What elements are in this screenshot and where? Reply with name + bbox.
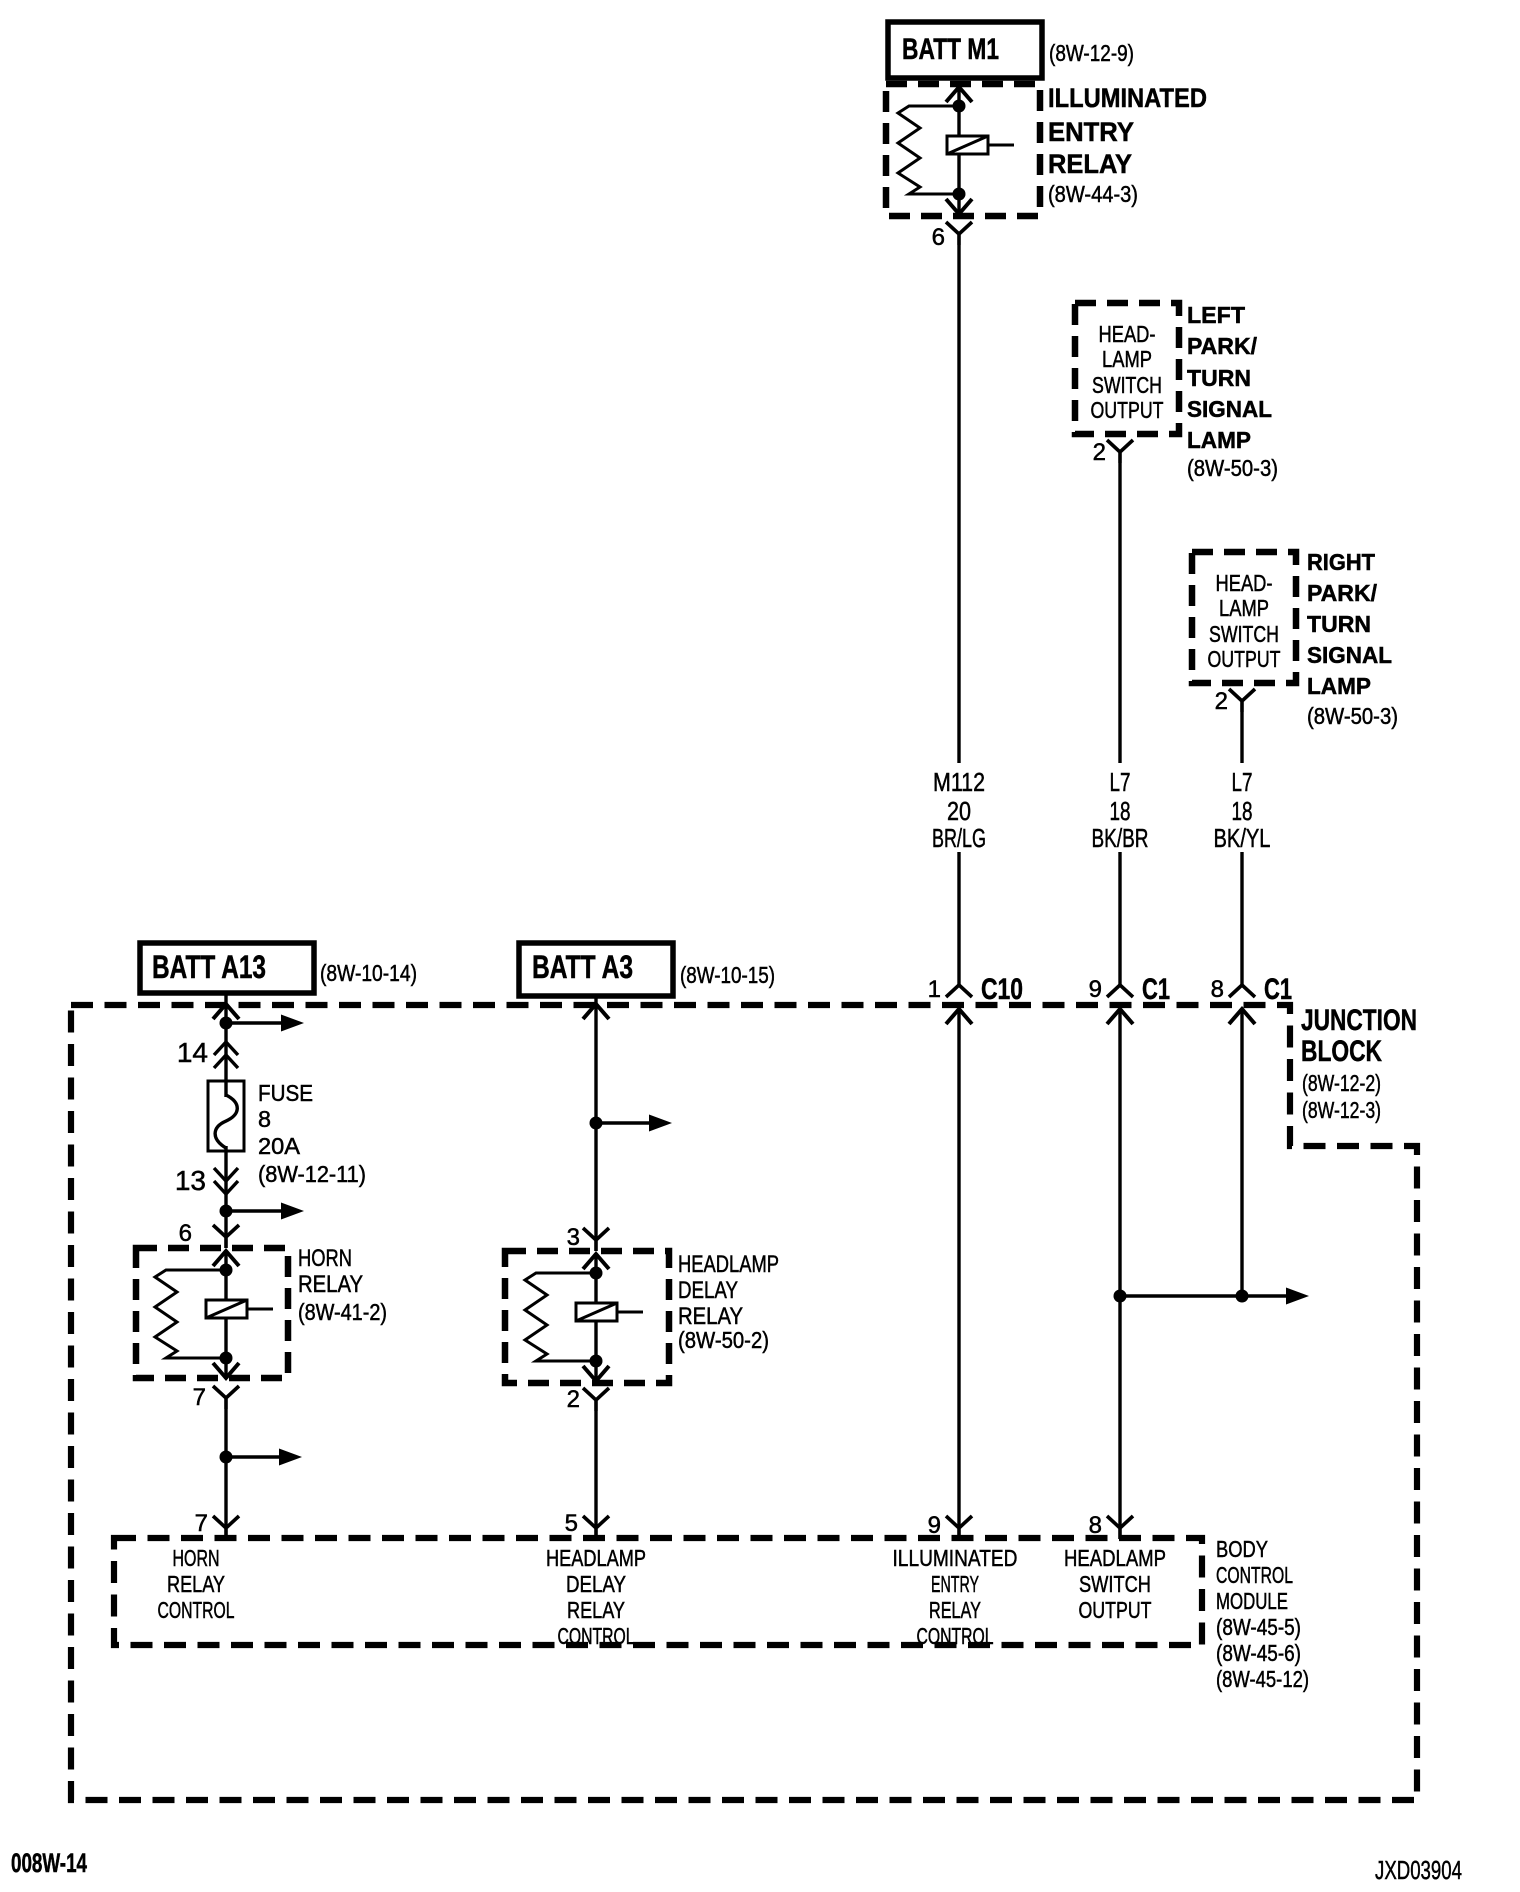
svg-text:CONTROL: CONTROL xyxy=(558,1623,635,1649)
junction block xyxy=(71,1005,1417,1800)
svg-text:OUTPUT: OUTPUT xyxy=(1208,646,1281,672)
svg-text:TURN: TURN xyxy=(1307,611,1371,637)
svg-text:(8W-45-5): (8W-45-5) xyxy=(1216,1614,1301,1640)
wire label M112 20 BR/LG xyxy=(932,767,986,853)
svg-text:8: 8 xyxy=(1211,976,1224,1003)
branch arrow headlamp switch output bus xyxy=(1242,1288,1309,1305)
svg-text:(8W-12-3): (8W-12-3) xyxy=(1302,1097,1381,1123)
svg-text:BATT M1: BATT M1 xyxy=(902,33,999,66)
svg-text:RELAY: RELAY xyxy=(929,1597,981,1623)
BCM text horn relay control xyxy=(158,1545,235,1623)
headlamp delay relay box xyxy=(505,1251,669,1383)
svg-text:SWITCH: SWITCH xyxy=(1079,1571,1151,1597)
pin 13 fuse block xyxy=(175,1165,238,1196)
svg-text:BK/YL: BK/YL xyxy=(1214,823,1271,853)
svg-text:RELAY: RELAY xyxy=(1048,149,1132,179)
relay coil xyxy=(206,1300,247,1318)
pin 2 right park/turn signal lamp xyxy=(1215,688,1255,715)
feed box BATT A13 xyxy=(140,943,314,993)
svg-text:7: 7 xyxy=(195,1510,208,1537)
svg-text:JUNCTION: JUNCTION xyxy=(1301,1004,1417,1037)
fuse 8 xyxy=(208,1081,244,1151)
reference (8W-10-15) xyxy=(680,962,775,988)
svg-text:(8W-12-9): (8W-12-9) xyxy=(1049,40,1134,66)
svg-text:20: 20 xyxy=(947,796,971,826)
svg-text:20A: 20A xyxy=(258,1133,301,1159)
wire: C1 pin 9 to BCM pin 8 xyxy=(1118,1009,1121,1528)
svg-text:18: 18 xyxy=(1232,796,1253,826)
arrowhead exiting relay bottom xyxy=(583,1366,609,1381)
page number 008W-14 xyxy=(11,1848,87,1878)
pin 3 headlamp delay relay xyxy=(567,1224,609,1251)
svg-text:PARK/: PARK/ xyxy=(1307,580,1378,606)
svg-text:(8W-10-14): (8W-10-14) xyxy=(320,960,417,986)
svg-text:LAMP: LAMP xyxy=(1219,595,1269,621)
svg-text:DELAY: DELAY xyxy=(566,1571,626,1597)
svg-text:CONTROL: CONTROL xyxy=(1216,1562,1293,1588)
feed box BATT A3 xyxy=(519,943,673,996)
illuminated entry relay label xyxy=(1048,83,1207,207)
svg-text:(8W-50-2): (8W-50-2) xyxy=(678,1327,769,1353)
arrowhead exiting relay bottom xyxy=(946,199,972,214)
wire L7 BK/YL upper segment xyxy=(1240,712,1243,763)
body control module label xyxy=(1216,1536,1309,1692)
svg-text:HORN: HORN xyxy=(173,1545,220,1571)
svg-text:RIGHT: RIGHT xyxy=(1307,549,1375,575)
svg-text:RELAY: RELAY xyxy=(567,1597,625,1623)
svg-text:MODULE: MODULE xyxy=(1216,1588,1288,1614)
svg-text:18: 18 xyxy=(1110,796,1131,826)
svg-text:LAMP: LAMP xyxy=(1102,346,1152,372)
svg-text:ILLUMINATED: ILLUMINATED xyxy=(893,1545,1018,1571)
junction dot relay bottom xyxy=(220,1352,233,1365)
svg-text:C1: C1 xyxy=(1264,973,1292,1006)
wire: fuse to horn relay xyxy=(224,1146,227,1237)
BCM pin 5 xyxy=(565,1510,609,1539)
junction dot relay top xyxy=(590,1267,603,1280)
right headlamp switch output text xyxy=(1208,570,1281,672)
BCM pin 8 xyxy=(1089,1512,1133,1539)
junction dot relay top xyxy=(220,1264,233,1277)
feed box BATT M1 xyxy=(888,22,1042,78)
svg-text:9: 9 xyxy=(1089,976,1102,1003)
junction dot relay bottom xyxy=(953,188,966,201)
wire label L7 18 BK/BR xyxy=(1092,767,1149,853)
wire: headlamp switch output bus xyxy=(1120,1294,1242,1297)
resistor (relay suppression) xyxy=(525,1273,596,1361)
svg-text:HEADLAMP: HEADLAMP xyxy=(1064,1545,1166,1571)
relay coil xyxy=(576,1303,617,1321)
svg-text:(8W-41-2): (8W-41-2) xyxy=(298,1299,387,1325)
junction dot headlamp switch output bus left xyxy=(1114,1290,1127,1303)
junction block label xyxy=(1301,1004,1417,1123)
svg-text:(8W-10-15): (8W-10-15) xyxy=(680,962,775,988)
svg-text:(8W-12-11): (8W-12-11) xyxy=(258,1161,366,1187)
svg-text:LEFT: LEFT xyxy=(1187,302,1245,328)
wire: BATT A3 into junction block xyxy=(583,996,609,1240)
svg-text:HEADLAMP: HEADLAMP xyxy=(546,1545,646,1571)
svg-text:SIGNAL: SIGNAL xyxy=(1307,642,1392,668)
BCM text headlamp delay relay control xyxy=(546,1545,646,1649)
label RIGHT PARK/TURN SIGNAL LAMP xyxy=(1307,549,1398,729)
svg-text:2: 2 xyxy=(1093,439,1106,466)
svg-text:SIGNAL: SIGNAL xyxy=(1187,396,1272,422)
svg-text:LAMP: LAMP xyxy=(1307,673,1371,699)
wire: BATT A13 into junction block xyxy=(213,993,239,1097)
horn relay box xyxy=(136,1248,288,1378)
svg-text:L7: L7 xyxy=(1110,767,1131,797)
svg-text:(8W-45-6): (8W-45-6) xyxy=(1216,1640,1301,1666)
pin 6 horn relay xyxy=(179,1220,239,1248)
wire M112 upper segment xyxy=(957,245,960,763)
illuminated entry relay box xyxy=(886,84,1040,216)
BCM pin 9 xyxy=(928,1512,972,1539)
svg-text:2: 2 xyxy=(567,1386,580,1413)
svg-text:RELAY: RELAY xyxy=(167,1571,225,1597)
svg-text:CONTROL: CONTROL xyxy=(917,1623,994,1649)
branch arrow below fuse xyxy=(226,1203,304,1220)
wire: relay internal vertical xyxy=(957,86,960,215)
label LEFT PARK/TURN SIGNAL LAMP xyxy=(1187,302,1278,481)
wire: relay internal vertical xyxy=(594,1253,597,1382)
wire L7 BK/YL lower segment xyxy=(1240,852,1243,985)
junction dot headlamp switch output bus right xyxy=(1236,1290,1249,1303)
svg-text:DELAY: DELAY xyxy=(678,1277,738,1304)
svg-text:HORN: HORN xyxy=(298,1245,352,1272)
svg-text:ENTRY: ENTRY xyxy=(931,1571,979,1597)
svg-text:ILLUMINATED: ILLUMINATED xyxy=(1048,83,1207,113)
wire: headlamp delay relay to BCM pin 5 xyxy=(594,1411,597,1528)
headlamp delay relay label xyxy=(678,1251,779,1353)
right headlamp switch output box xyxy=(1192,552,1296,683)
svg-text:BATT A3: BATT A3 xyxy=(532,949,633,985)
pin 2 left park/turn signal lamp xyxy=(1093,439,1133,466)
svg-text:(8W-12-2): (8W-12-2) xyxy=(1302,1070,1381,1096)
svg-text:M112: M112 xyxy=(933,767,985,797)
svg-text:RELAY: RELAY xyxy=(678,1303,743,1330)
svg-text:RELAY: RELAY xyxy=(298,1271,363,1298)
svg-text:BR/LG: BR/LG xyxy=(932,823,986,853)
svg-text:CONTROL: CONTROL xyxy=(158,1597,235,1623)
junction dot below BATT A3 xyxy=(590,1117,603,1130)
svg-text:7: 7 xyxy=(193,1384,206,1411)
branch arrow horn relay control xyxy=(226,1449,302,1466)
svg-text:TURN: TURN xyxy=(1187,365,1251,391)
arrowhead exiting relay bottom xyxy=(213,1363,239,1378)
wire: C10 to BCM pin 9 xyxy=(957,1009,960,1528)
pin 14 fuse block xyxy=(177,1037,238,1068)
body control module box xyxy=(114,1538,1202,1645)
reference (8W-12-9) xyxy=(1049,40,1134,66)
svg-text:HEAD-: HEAD- xyxy=(1216,570,1273,596)
svg-text:1: 1 xyxy=(928,976,941,1003)
svg-text:008W-14: 008W-14 xyxy=(11,1848,87,1878)
svg-text:FUSE: FUSE xyxy=(258,1080,313,1106)
svg-text:C10: C10 xyxy=(981,973,1023,1006)
svg-text:BK/BR: BK/BR xyxy=(1092,823,1149,853)
pin 7 horn relay xyxy=(193,1384,239,1411)
svg-text:OUTPUT: OUTPUT xyxy=(1091,397,1164,423)
BCM text illuminated entry relay control xyxy=(893,1545,1018,1649)
left headlamp switch output text xyxy=(1091,321,1164,423)
svg-text:(8W-50-3): (8W-50-3) xyxy=(1187,455,1278,481)
arrowhead entering relay top xyxy=(213,1251,239,1266)
relay coil xyxy=(947,136,988,154)
arrowhead entering relay top xyxy=(946,87,972,102)
svg-text:6: 6 xyxy=(179,1220,192,1247)
junction dot horn relay control xyxy=(220,1451,233,1464)
BCM pin 7 xyxy=(195,1510,239,1539)
svg-text:ENTRY: ENTRY xyxy=(1048,117,1134,147)
svg-text:6: 6 xyxy=(932,224,945,251)
wire M112 lower segment xyxy=(957,852,960,985)
wire label L7 18 BK/YL xyxy=(1214,767,1271,853)
svg-text:14: 14 xyxy=(177,1037,208,1068)
svg-text:OUTPUT: OUTPUT xyxy=(1079,1597,1152,1623)
svg-text:HEAD-: HEAD- xyxy=(1099,321,1156,347)
resistor (relay suppression) xyxy=(898,106,959,194)
BCM text headlamp switch output xyxy=(1064,1545,1166,1623)
svg-text:SWITCH: SWITCH xyxy=(1209,621,1279,647)
junction dot relay bottom xyxy=(590,1355,603,1368)
wire: horn relay to BCM pin 7 xyxy=(224,1409,227,1528)
branch arrow from BATT A13 feed xyxy=(226,1015,304,1032)
svg-text:5: 5 xyxy=(565,1510,578,1537)
drawing number JXD03904 xyxy=(1375,1855,1462,1885)
svg-text:C1: C1 xyxy=(1142,973,1170,1006)
svg-text:JXD03904: JXD03904 xyxy=(1375,1855,1462,1885)
svg-text:(8W-45-12): (8W-45-12) xyxy=(1216,1666,1309,1692)
horn relay label xyxy=(298,1245,387,1325)
svg-text:(8W-50-3): (8W-50-3) xyxy=(1307,703,1398,729)
pin 2 headlamp delay relay xyxy=(567,1386,609,1413)
branch arrow from BATT A3 feed xyxy=(596,1115,672,1132)
svg-text:3: 3 xyxy=(567,1224,580,1251)
svg-text:2: 2 xyxy=(1215,688,1228,715)
junction dot relay top xyxy=(953,100,966,113)
connector C1 pin 8 at junction block xyxy=(1211,973,1292,1024)
svg-text:LAMP: LAMP xyxy=(1187,427,1251,453)
wire: C1 pin 8 down to bus xyxy=(1240,1009,1243,1296)
resistor (relay suppression) xyxy=(155,1270,226,1358)
svg-text:PARK/: PARK/ xyxy=(1187,333,1258,359)
wire L7 BK/BR lower segment xyxy=(1118,852,1121,985)
arrowhead entering relay top xyxy=(583,1254,609,1269)
left headlamp switch output box xyxy=(1075,303,1179,434)
svg-text:BLOCK: BLOCK xyxy=(1301,1035,1382,1068)
svg-text:(8W-44-3): (8W-44-3) xyxy=(1048,181,1138,207)
wire: relay internal vertical xyxy=(224,1250,227,1379)
reference (8W-10-14) xyxy=(320,960,417,986)
junction dot below BATT A13 xyxy=(220,1017,233,1030)
svg-text:BODY: BODY xyxy=(1216,1536,1268,1562)
fuse label FUSE 8 20A xyxy=(258,1080,366,1187)
pin 6 illuminated entry relay xyxy=(932,222,972,251)
svg-text:HEADLAMP: HEADLAMP xyxy=(678,1251,779,1278)
connector C1 pin 9 at junction block xyxy=(1089,973,1170,1024)
svg-text:8: 8 xyxy=(258,1106,271,1132)
svg-text:SWITCH: SWITCH xyxy=(1092,372,1162,398)
svg-text:BATT A13: BATT A13 xyxy=(152,949,266,985)
wire L7 BK/BR upper segment xyxy=(1118,463,1121,763)
svg-text:L7: L7 xyxy=(1232,767,1253,797)
connector C10 pin 1 at junction block xyxy=(928,973,1023,1024)
svg-text:13: 13 xyxy=(175,1165,206,1196)
junction dot below fuse xyxy=(220,1205,233,1218)
